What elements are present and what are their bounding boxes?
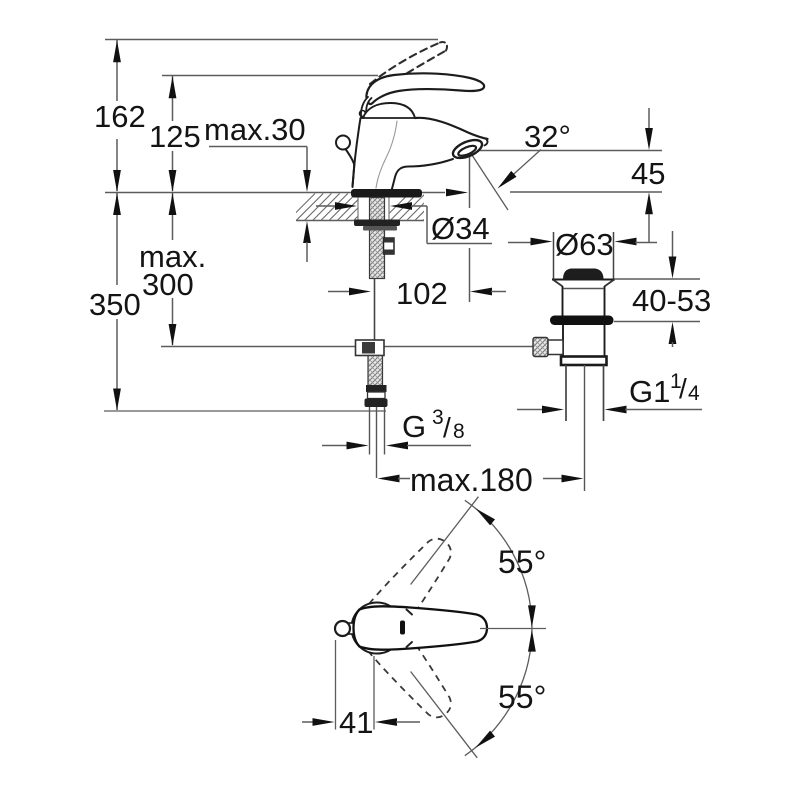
dim 41 arrow left bbox=[375, 718, 397, 726]
G38 left line bbox=[322, 445, 348, 447]
svg-text:41: 41 bbox=[339, 705, 373, 740]
dia34 leader horizontal bbox=[411, 205, 427, 207]
svg-text:max.180: max.180 bbox=[410, 462, 533, 498]
plan view horizontal center line bbox=[480, 628, 546, 630]
flange top surface line bbox=[552, 279, 615, 281]
handle detent mark upper bbox=[407, 610, 413, 615]
threaded shank bbox=[370, 198, 385, 279]
41 ext line left (knob) bbox=[335, 640, 337, 730]
dim 350 arrow up bbox=[113, 193, 121, 215]
drain flange right edge / ext line bbox=[613, 232, 615, 279]
drain body chrome line bbox=[563, 288, 604, 290]
dim 102 arrow right bbox=[349, 288, 371, 296]
countertop hatching right block bbox=[382, 194, 458, 221]
tailpipe right edge bbox=[603, 365, 605, 421]
arc arrow upper outward bbox=[476, 508, 495, 525]
dia34 arrow left bbox=[390, 202, 412, 210]
handle detent mark lower bbox=[407, 642, 413, 647]
svg-text:125: 125 bbox=[149, 119, 201, 154]
G38 arrow left bbox=[386, 442, 408, 450]
horizontal pop-up actuating rod line bbox=[161, 346, 533, 348]
supply tube line bbox=[374, 279, 376, 341]
surface leader arrow right bbox=[446, 189, 468, 197]
arc arrow lower outward bbox=[476, 731, 495, 748]
dim 41 left line bbox=[302, 721, 314, 723]
dim max300 line upper segment bbox=[172, 192, 174, 240]
dim 102 right line bbox=[491, 291, 506, 293]
dim 45 arrow up bbox=[645, 192, 653, 214]
dim 125 line lower segment bbox=[172, 151, 174, 191]
countertop top surface line bbox=[105, 192, 445, 194]
32deg leader arrow bbox=[498, 171, 517, 189]
svg-text:/: / bbox=[443, 412, 451, 443]
dim 350 line upper segment bbox=[116, 192, 118, 285]
dim 162 line lower segment bbox=[116, 139, 118, 191]
hose end fitting band 1 bbox=[366, 385, 387, 392]
svg-text:350: 350 bbox=[89, 287, 141, 322]
faucet spout top edge bbox=[415, 118, 488, 139]
dia34 leader vertical bbox=[426, 206, 428, 244]
svg-text:45: 45 bbox=[631, 156, 665, 191]
dim 162 arrow down bbox=[113, 170, 121, 192]
max180 arrow left bbox=[378, 475, 400, 483]
washer under counter bbox=[354, 220, 400, 227]
dim 162 line upper segment bbox=[116, 40, 118, 101]
svg-text:4: 4 bbox=[688, 382, 700, 405]
cartridge base line bbox=[361, 117, 417, 119]
dim 45 lower shaft bbox=[648, 214, 650, 243]
dim 45 upper shaft bbox=[648, 108, 650, 129]
hole left edge bbox=[357, 193, 359, 220]
max180 right line bbox=[543, 478, 563, 480]
32deg leader line bbox=[501, 150, 541, 186]
faucet lever (solid, horizontal position) bbox=[366, 73, 484, 104]
flange taper bbox=[554, 280, 614, 286]
faucet lever neck / pivot bbox=[361, 97, 372, 117]
pop-up rod lower extension bbox=[376, 407, 378, 478]
dashed handle position +55deg (upper) bbox=[362, 529, 463, 640]
dia63 left line bbox=[508, 242, 531, 244]
tailpipe left edge bbox=[565, 365, 567, 421]
svg-text:55°: 55° bbox=[498, 544, 546, 580]
svg-text:G1: G1 bbox=[629, 374, 670, 409]
svg-text:max.30: max.30 bbox=[204, 112, 306, 147]
G114 left line bbox=[517, 409, 542, 411]
dim 45 arrow down bbox=[645, 128, 653, 150]
faucet spout underside S-curve bbox=[392, 159, 454, 191]
hose end level line (350 lower ref) bbox=[104, 410, 386, 412]
dim 125 arrow up bbox=[169, 76, 177, 98]
dim 350 line lower segment bbox=[116, 319, 118, 410]
svg-text:300: 300 bbox=[142, 267, 194, 302]
countertop bottom surface line bbox=[296, 220, 424, 222]
svg-text:Ø34: Ø34 bbox=[431, 211, 490, 246]
dim 350 arrow down bbox=[113, 389, 121, 411]
braided hose section bbox=[368, 356, 383, 386]
faucet raised lever dashed tip bbox=[440, 42, 447, 51]
faucet base plate bbox=[351, 189, 422, 198]
svg-text:40-53: 40-53 bbox=[632, 283, 711, 318]
handle (plan view, solid) bbox=[354, 606, 488, 649]
faucet body left edge bbox=[353, 118, 361, 187]
drain flange left edge / ext line bbox=[553, 232, 555, 279]
svg-text:162: 162 bbox=[94, 99, 146, 134]
max180 left line bbox=[398, 478, 410, 480]
svg-text:55°: 55° bbox=[498, 679, 546, 715]
hole right edge bbox=[388, 193, 390, 220]
dia34 arrow right bbox=[335, 202, 357, 210]
knob connector (plan view) bbox=[348, 623, 355, 634]
pull knob circle (plan view) bbox=[335, 621, 350, 636]
ref line top of lever (125 upper ref) bbox=[162, 75, 378, 77]
dashed handle position -55deg (lower) bbox=[362, 616, 463, 727]
dim max300 arrow down bbox=[169, 324, 177, 346]
dia63 arrow left bbox=[615, 238, 637, 246]
svg-text:8: 8 bbox=[453, 420, 465, 443]
G38 arrow right bbox=[347, 442, 369, 450]
max180 arrow right bbox=[562, 475, 584, 483]
svg-text:G: G bbox=[402, 409, 426, 444]
faucet body circle (plan view) bbox=[352, 603, 403, 654]
spout tip extension line upper bbox=[469, 152, 471, 208]
40-53 upper shaft bbox=[672, 231, 674, 258]
pivot screw dot bbox=[360, 111, 366, 117]
dia63 right line bbox=[635, 242, 657, 244]
countertop hatching left block bbox=[288, 194, 397, 221]
dim 125 line upper segment bbox=[172, 76, 174, 121]
svg-text:102: 102 bbox=[396, 276, 448, 311]
cartridge dome under lever bbox=[363, 103, 415, 118]
G38 right line bbox=[407, 445, 471, 447]
drain body upper bbox=[562, 286, 564, 316]
40-53 upper ref line bbox=[614, 278, 700, 280]
drain bottom nut bbox=[561, 357, 607, 366]
dia34 left line bbox=[316, 205, 337, 207]
ref line top of raised lever (162 upper ref) bbox=[105, 39, 438, 41]
max30 lower shaft bbox=[306, 242, 308, 262]
arc arrow upper-mid down bbox=[528, 605, 536, 627]
G114 right line bbox=[625, 409, 702, 411]
faucet raised lever dashed top edge bbox=[370, 43, 440, 85]
40-53 lower shaft bbox=[672, 342, 674, 347]
dim 102 arrow left bbox=[470, 288, 492, 296]
drain side rod knob bbox=[533, 338, 548, 357]
swing arc 55deg both ways bbox=[465, 500, 532, 755]
dia34 label underline bbox=[427, 243, 492, 245]
G3/8 pipe right edge bbox=[384, 407, 386, 455]
dim 125 arrow down bbox=[169, 170, 177, 192]
hose end fitting band 3 bbox=[365, 399, 388, 408]
pull rod knob bbox=[336, 136, 350, 150]
spout tip extension line lower bbox=[469, 248, 471, 302]
max30 underline bbox=[209, 146, 307, 148]
arc arrow lower-mid up bbox=[528, 630, 536, 652]
faucet raised lever dashed bottom edge bbox=[377, 51, 446, 94]
svg-text:/: / bbox=[679, 373, 687, 404]
40-53 arrow down bbox=[669, 257, 677, 279]
G114 arrow right bbox=[542, 406, 564, 414]
pull rod bbox=[346, 149, 355, 186]
water stream 32deg line bbox=[470, 152, 508, 210]
G3/8 pipe left edge bbox=[369, 407, 371, 455]
41 ext line right (pivot) bbox=[373, 656, 375, 730]
drain body lower bbox=[562, 325, 564, 357]
extension line +55deg bbox=[411, 497, 479, 585]
drain O-ring seal bbox=[550, 316, 614, 326]
svg-text:32°: 32° bbox=[524, 119, 571, 154]
tailpipe center line bbox=[584, 365, 586, 491]
max30 arrow up to counter bottom bbox=[303, 221, 311, 243]
rod tee fitting bbox=[356, 340, 385, 356]
lock nut bbox=[363, 226, 397, 231]
max30 leader drop bbox=[306, 147, 308, 171]
dia63 arrow right bbox=[531, 238, 553, 246]
drain plug cap bbox=[563, 269, 604, 280]
spout tip hook bbox=[485, 140, 488, 146]
G114 arrow left bbox=[605, 406, 627, 414]
hose end fitting band 2 bbox=[368, 392, 386, 399]
svg-text:Ø63: Ø63 bbox=[555, 227, 614, 262]
faucet aerator outlet bbox=[450, 136, 484, 161]
dim max300 line lower segment bbox=[172, 298, 174, 345]
counter level line right (45 lower ref) bbox=[510, 191, 662, 193]
handle slot mark bbox=[400, 621, 405, 635]
pop-up rod guide block bbox=[384, 238, 395, 254]
max30 arrow down to counter top bbox=[303, 170, 311, 192]
40-53 arrow up bbox=[669, 322, 677, 344]
body inner contour bbox=[376, 121, 397, 188]
40-53 lower ref line bbox=[614, 321, 700, 323]
extension line -55deg bbox=[411, 672, 478, 758]
spout outlet level line (45 upper ref) bbox=[470, 150, 662, 152]
dim max300 arrow up bbox=[169, 193, 177, 215]
dim 162 arrow up bbox=[113, 40, 121, 62]
dim 41 right line bbox=[396, 721, 420, 723]
dim 41 arrow right bbox=[313, 718, 335, 726]
svg-text:3: 3 bbox=[432, 406, 444, 429]
dim 102 left line bbox=[328, 291, 350, 293]
